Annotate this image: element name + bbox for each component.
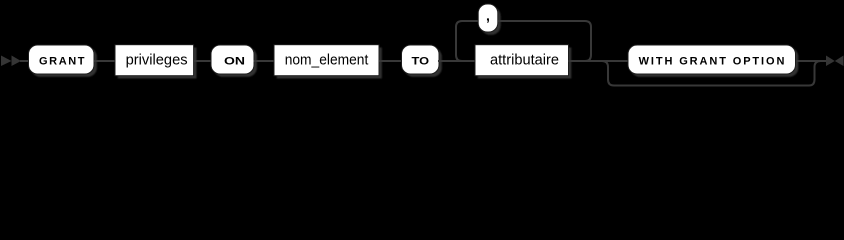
terminal GRANT shadow [31,48,97,77]
loop right riser [585,21,591,61]
svg-text:,: , [486,8,490,24]
wire GRANT to privileges [94,60,116,62]
terminal GRANT [29,45,95,74]
nonterminal attributaire shadow [478,48,572,79]
terminal WITH GRANT OPTION [628,45,796,74]
svg-text:attributaire: attributaire [490,51,559,68]
wire privileges to ON [194,60,212,62]
svg-text:GRANT: GRANT [39,55,85,67]
terminal TO shadow [404,48,442,77]
terminal WITH GRANT OPTION shadow [631,48,799,77]
svg-text:WITH GRANT OPTION: WITH GRANT OPTION [639,55,785,67]
bypass skip line [602,61,821,86]
start arrow 1 [1,56,12,67]
terminal comma [478,4,498,32]
wire start to GRANT [20,60,29,62]
nonterminal nom_element shadow [277,48,382,79]
wire ON to nom_element [254,60,276,62]
end arrow right [826,56,835,67]
wire attributaire to WITH GRANT OPTION [569,60,630,62]
start arrow 2 [12,56,22,67]
terminal comma shadow [481,7,501,35]
svg-text:nom_element: nom_element [285,51,369,68]
loop top wire [498,20,585,22]
wire WITH GRANT OPTION to end [796,60,827,62]
nonterminal privileges [115,45,194,76]
terminal ON [211,45,254,74]
svg-text:privileges: privileges [126,51,188,68]
loop left riser [456,21,479,61]
svg-text:ON: ON [224,55,245,67]
terminal ON shadow [214,48,257,77]
nonterminal privileges shadow [118,48,197,79]
terminal TO [402,45,440,74]
svg-text:TO: TO [412,55,430,67]
nonterminal nom_element [274,45,379,76]
wire nom_element to TO [379,60,402,62]
wire TO to attributaire [438,60,476,62]
nonterminal attributaire [475,45,569,76]
end arrow left [835,56,844,67]
